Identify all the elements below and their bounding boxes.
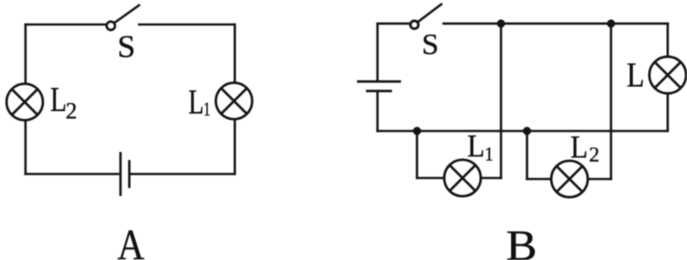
lamp L1 (circuit B) <box>444 160 481 197</box>
lamp L (circuit B) <box>649 57 686 94</box>
lamp L1 (circuit A) <box>216 83 252 119</box>
switch S (circuit A) <box>107 5 140 30</box>
wire: B top segment left of switch <box>376 22 409 24</box>
wire: A bottom-right segment <box>131 173 236 175</box>
wire: L2 branch drop from bottom node x=527 <box>526 131 528 180</box>
switch S (circuit B) <box>410 4 442 29</box>
battery (circuit B) <box>357 82 401 92</box>
junction node (top wire, x=501) <box>497 20 505 28</box>
wire: L1 branch horizontal right stub <box>481 177 503 179</box>
svg-text:1: 1 <box>203 99 210 121</box>
svg-text:2: 2 <box>589 143 600 167</box>
wire: A top-left segment <box>24 23 106 25</box>
svg-text:B: B <box>506 223 537 260</box>
junction node (bottom wire, x=417) <box>413 127 421 135</box>
svg-text:S: S <box>117 28 135 64</box>
battery (circuit A) <box>121 152 130 196</box>
wire: A right side upper <box>234 23 236 83</box>
svg-text:A: A <box>117 222 144 260</box>
lamp L2 (circuit A) <box>7 84 43 120</box>
wire: A left side lower <box>24 120 26 176</box>
wire: B right side upper <box>667 23 669 58</box>
svg-text:L: L <box>627 56 645 95</box>
wire: vertical from top node x=611 down to L2 branch <box>610 24 612 181</box>
wire: A bottom-left segment <box>24 173 119 175</box>
wire: L1 branch drop from bottom node x=417 <box>416 131 418 179</box>
wire: L1 branch horizontal left stub <box>416 177 445 179</box>
svg-text:L: L <box>570 128 588 164</box>
svg-text:1: 1 <box>485 143 494 165</box>
wire: L2 branch horizontal left stub <box>526 178 552 180</box>
wire: vertical from top node x=501 down to L1 branch <box>500 24 502 180</box>
wire: B left side lower <box>376 92 378 132</box>
svg-text:L: L <box>467 127 485 163</box>
svg-text:L: L <box>50 80 67 119</box>
wire: L2 branch horizontal right stub <box>588 178 613 180</box>
wire: A top-right segment <box>138 23 236 25</box>
lamp L2 (circuit B) <box>551 161 588 198</box>
wire: B top segment right of switch <box>442 22 669 24</box>
wire: B bottom segment <box>376 130 668 132</box>
svg-text:2: 2 <box>66 98 78 123</box>
wire: A left side upper <box>24 23 26 84</box>
junction node (top wire, x=611) <box>607 20 615 28</box>
wire: A right side lower <box>234 119 236 176</box>
junction node (bottom wire, x=527) <box>523 127 531 135</box>
wire: B right side lower <box>667 93 669 133</box>
svg-text:S: S <box>422 28 439 61</box>
svg-text:L: L <box>188 83 204 122</box>
wire: B left side upper <box>376 23 378 81</box>
